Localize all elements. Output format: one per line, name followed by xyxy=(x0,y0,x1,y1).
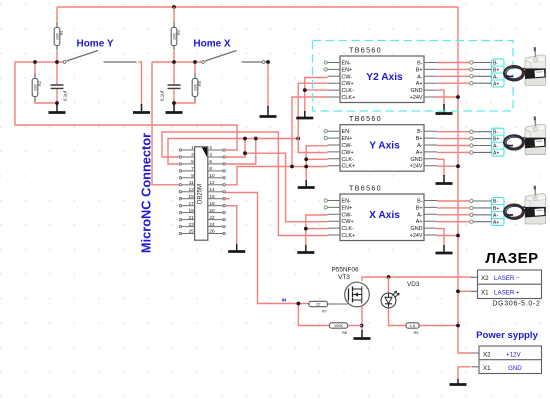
svg-text:R4: R4 xyxy=(177,30,181,35)
op-amp-block driver U3 TB6560 X Axis xyxy=(324,184,437,241)
svg-text:A-: A- xyxy=(417,74,423,80)
svg-text:0,1uf: 0,1uf xyxy=(63,90,68,101)
svg-text:24: 24 xyxy=(209,222,215,228)
wire Home X capacitor branch xyxy=(173,62,175,106)
svg-text:Power sypply: Power sypply xyxy=(476,330,539,341)
svg-text:6: 6 xyxy=(209,159,212,165)
svg-text:10K: 10K xyxy=(193,84,198,91)
svg-text:12: 12 xyxy=(209,180,215,186)
capacitor C1 value 0,1uf xyxy=(51,85,68,101)
wire net pin4 up to CW+ bus xyxy=(225,139,246,158)
svg-text:CW+: CW+ xyxy=(342,81,354,87)
svg-text:X1: X1 xyxy=(481,289,489,296)
connector power supply block X2/X1 xyxy=(479,346,542,374)
resistor R8 100K xyxy=(330,323,348,335)
svg-text:LASER +: LASER + xyxy=(494,289,520,296)
switch Home Y contact and blade xyxy=(63,51,136,64)
resistor R7 22 xyxy=(309,301,328,313)
pin 23 of DB25M xyxy=(179,222,194,228)
svg-text:EN+: EN+ xyxy=(342,205,353,211)
node Y2 CLK- tie xyxy=(303,88,307,92)
pin 25 of DB25M xyxy=(179,229,194,235)
svg-text:B-: B- xyxy=(417,199,423,205)
capacitor C2 value 0,1uf xyxy=(160,85,181,101)
svg-text:R5: R5 xyxy=(198,81,202,86)
svg-text:B+: B+ xyxy=(493,206,499,212)
wire X GND pin to ground xyxy=(437,229,444,246)
switch Home X contact and blade xyxy=(202,51,265,64)
pin 19 of DB25M xyxy=(179,208,194,214)
op-amp-block driver U1 TB6560 Y2 Axis xyxy=(324,46,437,103)
pin 1 of DB25M xyxy=(179,145,194,151)
motor stepper M1 Y2 axis photo xyxy=(504,47,546,85)
svg-text:B-: B- xyxy=(417,61,423,67)
svg-text:TB6560: TB6560 xyxy=(349,114,382,123)
wire Y2 CLK+ down to CLK bus xyxy=(292,97,328,167)
pin 4 of DB25M xyxy=(208,152,226,158)
ground Home Y cap xyxy=(49,104,66,113)
svg-text:EN-: EN- xyxy=(342,61,351,67)
pin 22 of DB25M xyxy=(208,215,226,221)
resistor R4 10K xyxy=(171,23,181,51)
svg-text:A-: A- xyxy=(493,74,498,80)
wire LED cathode through R9 to trunk xyxy=(389,308,459,326)
svg-text:X2: X2 xyxy=(481,275,489,282)
svg-text:21: 21 xyxy=(188,215,194,221)
svg-text:10K: 10K xyxy=(172,33,177,40)
svg-text:A+: A+ xyxy=(416,150,423,156)
svg-text:B+: B+ xyxy=(416,205,423,211)
svg-text:4: 4 xyxy=(209,152,212,158)
wire Home Y capacitor branch xyxy=(56,62,58,106)
svg-text:CW-: CW- xyxy=(342,143,353,149)
svg-text:CW-: CW- xyxy=(342,74,353,80)
resistor R9 1,6k xyxy=(406,323,419,335)
wire CLK bus ground drop xyxy=(305,167,307,182)
pin 7 of DB25M xyxy=(179,166,194,172)
pin 16 of DB25M xyxy=(208,194,226,200)
wire Home X switch right contact down to ground xyxy=(265,62,268,107)
node gate divider junction xyxy=(297,302,301,306)
node Home Y junctions xyxy=(33,60,37,64)
svg-text:0,1uf: 0,1uf xyxy=(160,90,165,101)
wire Home Y switch right contact down to ground xyxy=(139,62,142,106)
svg-text:14: 14 xyxy=(209,187,215,193)
wire Y axis CW- / CLK- tie into CLK bus xyxy=(306,146,327,167)
wire power supply X1 to ground xyxy=(458,367,471,380)
svg-text:7: 7 xyxy=(191,166,194,172)
svg-text:B+: B+ xyxy=(493,137,499,143)
svg-text:Home X: Home X xyxy=(193,39,231,50)
svg-text:R7: R7 xyxy=(322,310,327,314)
resistor R1 10K xyxy=(54,23,64,51)
transistor VT3 MOSFET symbol xyxy=(334,282,370,307)
svg-text:DB25M: DB25M xyxy=(197,184,203,204)
resistor R2 10K xyxy=(32,74,42,102)
wire Y GND pin to ground xyxy=(437,159,444,176)
svg-text:B-: B- xyxy=(493,130,498,136)
pin 11 of DB25M xyxy=(179,180,194,186)
wire +24V rail: top rail and right trunk down to power supply X2 xyxy=(57,7,472,353)
node CLK bus junctions xyxy=(290,165,294,169)
svg-text:CLK-: CLK- xyxy=(342,157,354,163)
svg-text:22: 22 xyxy=(209,215,215,221)
ground X CW- xyxy=(297,245,314,253)
pin 8 of DB25M xyxy=(208,166,226,172)
svg-text:R2: R2 xyxy=(38,81,42,86)
wire Y2 GND pin to ground xyxy=(437,90,444,105)
svg-text:+24V: +24V xyxy=(410,233,423,239)
pin 9 of DB25M xyxy=(179,173,194,179)
svg-text:23: 23 xyxy=(188,222,194,228)
svg-text:CW+: CW+ xyxy=(342,219,354,225)
resistor R5 10K xyxy=(192,74,202,102)
node CW+ bus junctions xyxy=(243,137,247,141)
svg-text:18: 18 xyxy=(209,201,215,207)
pin 15 of DB25M xyxy=(179,194,194,200)
wire Home X common down to DB25 pin 11 xyxy=(152,62,182,185)
svg-text:8: 8 xyxy=(209,166,212,172)
svg-text:MicroNC Connector: MicroNC Connector xyxy=(139,133,154,253)
svg-text:EN+: EN+ xyxy=(342,136,353,142)
pin 26 of DB25M xyxy=(208,229,226,235)
op-amp-block driver U2 TB6560 Y Axis xyxy=(324,114,437,171)
svg-text:ЛАЗЕР: ЛАЗЕР xyxy=(485,250,538,267)
svg-text:+12V: +12V xyxy=(506,351,521,358)
svg-text:A+: A+ xyxy=(416,81,423,87)
svg-text:TB6560: TB6560 xyxy=(349,184,382,193)
svg-text:A+: A+ xyxy=(493,81,499,87)
wire Home Y pull-up resistor leads xyxy=(56,7,58,62)
ground CLK bus xyxy=(298,180,315,188)
wire net pin12 CLK bus to Y axis CLK+ xyxy=(225,167,328,185)
svg-text:R8: R8 xyxy=(342,331,347,335)
pin 10 of DB25M xyxy=(208,173,226,179)
svg-text:3: 3 xyxy=(191,152,194,158)
wire R8 to source xyxy=(348,325,363,327)
pin 24 of DB25M xyxy=(208,222,226,228)
svg-text:26: 26 xyxy=(209,229,215,235)
pin 21 of DB25M xyxy=(179,215,194,221)
svg-text:22: 22 xyxy=(316,302,320,307)
svg-text:CLK+: CLK+ xyxy=(342,95,356,101)
node source / R8 junction xyxy=(360,324,364,328)
svg-text:11: 11 xyxy=(189,180,194,186)
wire Y +24V pin to trunk xyxy=(437,165,458,167)
ground Y2 CW- xyxy=(296,111,313,118)
svg-text:VD3: VD3 xyxy=(407,281,420,288)
node Home X switch right junction xyxy=(266,60,270,64)
svg-text:X Axis: X Axis xyxy=(369,210,400,221)
motor stepper M2 Y axis photo xyxy=(504,116,546,154)
connector laser block X2/X1 xyxy=(478,270,542,299)
ground Home X cap xyxy=(166,104,183,113)
svg-text:Y2 Axis: Y2 Axis xyxy=(366,72,403,83)
svg-text:CLK-: CLK- xyxy=(342,88,354,94)
svg-text:GND: GND xyxy=(508,365,522,372)
svg-text:EN+: EN+ xyxy=(342,67,353,73)
svg-text:B+: B+ xyxy=(493,67,499,73)
svg-text:10K: 10K xyxy=(55,33,60,40)
connector DB25M body xyxy=(195,147,208,240)
svg-text:X2: X2 xyxy=(483,351,491,358)
wire net pin6 riser xyxy=(225,139,256,165)
ground power supply xyxy=(450,379,467,385)
svg-text:25: 25 xyxy=(188,229,194,235)
svg-text:CLK+: CLK+ xyxy=(342,164,356,170)
svg-text:X1: X1 xyxy=(483,365,491,372)
wire net pin3 to X axis CLK+ xyxy=(162,132,328,236)
svg-text:2: 2 xyxy=(209,145,212,151)
svg-text:10: 10 xyxy=(209,173,215,179)
ground DB25 pin18 xyxy=(228,244,245,252)
svg-text:A-: A- xyxy=(493,213,498,219)
wire motor phase wires B-/B+/A-/A+ of block 2 xyxy=(437,132,470,153)
pin 12 of DB25M xyxy=(208,180,226,186)
svg-text:GND: GND xyxy=(411,157,423,163)
svg-text:A+: A+ xyxy=(493,151,499,157)
svg-text:EN-: EN- xyxy=(342,199,351,205)
svg-text:15: 15 xyxy=(188,194,194,200)
ground Y2 block GND xyxy=(436,104,453,114)
wire Y2 CW- / CLK- tied to ground below box xyxy=(305,78,328,113)
svg-text:10K: 10K xyxy=(33,84,38,91)
svg-text:P55NF06: P55NF06 xyxy=(332,267,359,274)
svg-text:R9: R9 xyxy=(414,331,419,335)
svg-text:A-: A- xyxy=(493,144,498,150)
node Home X junctions xyxy=(172,60,176,64)
svg-text:A-: A- xyxy=(417,212,423,218)
svg-text:100K: 100K xyxy=(334,323,343,328)
pin 2 of DB25M xyxy=(208,145,226,151)
svg-text:GND: GND xyxy=(411,226,423,232)
svg-text:B+: B+ xyxy=(416,67,423,73)
svg-text:16: 16 xyxy=(209,194,215,200)
svg-text:CLK+: CLK+ xyxy=(342,233,356,239)
svg-text:DG306-5.0-2: DG306-5.0-2 xyxy=(492,301,540,308)
pin 20 of DB25M xyxy=(208,208,226,214)
ground Home X switch xyxy=(260,106,277,117)
wire Home X pull-up resistor leads xyxy=(173,7,175,62)
svg-text:1: 1 xyxy=(191,145,194,151)
svg-text:B-: B- xyxy=(417,129,423,135)
ground X block GND xyxy=(436,245,453,253)
svg-text:B-: B- xyxy=(493,60,498,66)
wire gate lead grey xyxy=(328,303,334,305)
wire net pin2 to Home Y switch row (left loop) xyxy=(15,62,237,150)
wire net pin14 IN line to MOSFET gate resistors xyxy=(225,193,310,304)
wire Home X R5 branch xyxy=(174,62,195,103)
pin 13 of DB25M xyxy=(179,187,194,193)
connector motor terminal X2 B-/B+/A-/A+ xyxy=(470,128,504,156)
wire X +24V pin to trunk xyxy=(437,235,458,237)
wire Y2 CW+ down to Y CW+ xyxy=(298,83,327,152)
node X axis CLK- tie xyxy=(304,227,308,231)
svg-text:LASER −: LASER − xyxy=(494,275,520,282)
pin 14 of DB25M xyxy=(208,187,226,193)
svg-text:CLK-: CLK- xyxy=(342,226,354,232)
svg-text:1,6: 1,6 xyxy=(410,323,415,328)
node LED anode junction xyxy=(387,275,391,279)
wire motor phase wires B-/B+/A-/A+ of block 3 xyxy=(437,201,470,222)
svg-text:19: 19 xyxy=(188,208,194,214)
svg-text:B-: B- xyxy=(493,199,498,205)
svg-text:13: 13 xyxy=(188,187,194,193)
node Y2 axis group cyan dashed outline xyxy=(313,41,514,112)
wire net pin18 to ground xyxy=(225,206,237,246)
wire Y2 +24V pin to trunk xyxy=(437,96,458,98)
svg-text:A+: A+ xyxy=(416,219,423,225)
svg-text:B+: B+ xyxy=(416,136,423,142)
svg-text:IN: IN xyxy=(282,298,287,304)
pin 3 of DB25M xyxy=(179,152,194,158)
svg-text:17: 17 xyxy=(188,201,194,207)
pin 5 of DB25M xyxy=(179,159,194,165)
pin leads of power supply block xyxy=(472,353,480,367)
svg-text:+24V: +24V xyxy=(410,95,423,101)
pin leads of laser block xyxy=(471,277,478,291)
svg-text:Home Y: Home Y xyxy=(76,39,113,50)
svg-text:R1: R1 xyxy=(60,30,64,35)
wire gate divider branch to R8 xyxy=(298,304,329,326)
wire MOSFET source to ground xyxy=(361,307,363,332)
wire motor phase wires B-/B+/A-/A+ of block 1 xyxy=(437,63,470,84)
svg-text:GND: GND xyxy=(411,88,423,94)
node junction on top rail at Home X branch xyxy=(172,5,176,9)
wire Home X switch row xyxy=(152,61,202,63)
ground Y block GND xyxy=(436,175,453,184)
svg-text:CW-: CW- xyxy=(342,212,353,218)
wire net pin16 stub xyxy=(225,198,231,200)
svg-text:CW+: CW+ xyxy=(342,150,354,156)
pin 17 of DB25M xyxy=(179,201,194,207)
wire net pin5 / pin6 bus at y138.5 joining Y2/Y CW+ vertical xyxy=(168,139,298,165)
svg-text:A-: A- xyxy=(417,143,423,149)
pin 18 of DB25M xyxy=(208,201,226,207)
svg-text:9: 9 xyxy=(191,173,194,179)
wire MOSFET drain line to laser X2 xyxy=(362,277,471,281)
ground MOSFET source xyxy=(354,330,371,339)
pin 6 of DB25M xyxy=(208,159,226,165)
wire net pin4 branch to X axis CW+ xyxy=(245,153,328,222)
svg-text:EN-: EN- xyxy=(342,129,351,135)
svg-text:+24V: +24V xyxy=(410,164,423,170)
svg-text:Y Axis: Y Axis xyxy=(369,141,400,152)
connector motor terminal X1 B-/B+/A-/A+ xyxy=(470,59,504,87)
svg-text:TB6560: TB6560 xyxy=(349,46,382,55)
wire laser X1 to trunk xyxy=(458,290,471,292)
wire LED anode lead xyxy=(388,277,390,294)
svg-text:VT3: VT3 xyxy=(338,274,350,281)
connector motor terminal X3 B-/B+/A-/A+ xyxy=(470,198,504,226)
ground Home Y switch xyxy=(133,104,150,113)
diode LED VD3 symbol xyxy=(381,291,399,308)
svg-text:20: 20 xyxy=(209,208,215,214)
wire Home Y R2 branch xyxy=(35,62,57,103)
svg-text:5: 5 xyxy=(191,159,194,165)
wire X axis CW- / CLK- tied to ground xyxy=(306,215,328,246)
motor stepper M3 X axis photo xyxy=(504,186,546,224)
svg-text:A+: A+ xyxy=(493,220,499,226)
